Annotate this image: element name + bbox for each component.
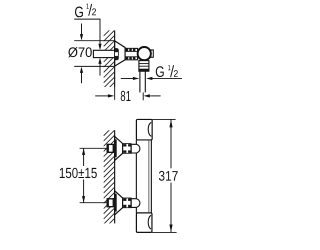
union nut (top view)	[125, 48, 138, 59]
G 1/2 top label text	[75, 4, 96, 18]
150±15 upper extension line	[80, 147, 107, 149]
thermostat bar left edge	[135, 140, 137, 213]
G 1/2 bottom label text	[156, 65, 178, 77]
pipe bore lines through nut	[125, 50, 138, 52]
lower rosette collar dark bar at wall	[114, 194, 117, 212]
thermostat bar inner shading line	[148, 141, 150, 213]
upper rosette escutcheon cone	[115, 136, 123, 160]
outlet pipe (downward, G 1/2)	[139, 71, 141, 92]
rosette collar dark detail	[115, 48, 119, 60]
Ø70 dimension lower arrow	[81, 72, 83, 83]
extension line top of Ø70 rosette	[74, 40, 114, 42]
lower supply pipe in wall	[107, 199, 114, 207]
nut shading band top	[126, 49, 136, 52]
extension line bottom of Ø70 rosette	[74, 65, 114, 67]
lower union nut	[123, 198, 131, 208]
bar top cap end ellipse arc	[148, 123, 151, 137]
317 upper extension line	[152, 118, 175, 120]
81 dimension right arrow	[144, 94, 150, 97]
317 dimension line with arrows	[170, 119, 172, 168]
nut ridge gaps	[128, 49, 129, 60]
thermostat bar right edge	[150, 140, 152, 213]
lower inlet dome on bar	[131, 199, 140, 208]
150±15 dimension line with arrows	[83, 148, 85, 166]
nut shading band bottom	[126, 57, 136, 60]
valve body circle (top view)	[138, 47, 151, 60]
bar bottom cap end ellipse arc	[148, 215, 151, 229]
bar top cap	[136, 119, 152, 140]
bar bottom cap	[136, 213, 152, 233]
upper inlet dome on bar	[131, 144, 140, 153]
upper supply pipe in wall	[107, 144, 114, 152]
outlet adapter dark ring	[139, 69, 149, 72]
G 1/2 upper arrow onto inlet pipe	[98, 44, 101, 50]
G 1/2 bottom dimension right arrow with leader under label	[146, 77, 152, 80]
wall hatching (top view)	[104, 25, 115, 98]
inlet pipe through wall (top view)	[93, 50, 114, 57]
upper union nut	[123, 144, 131, 154]
G 1/2 lower arrow onto inlet pipe	[98, 58, 101, 64]
wall face extension line down to 81 dimension	[114, 87, 116, 100]
wall hatching (bottom view)	[104, 125, 115, 234]
150±15 lower extension line	[80, 202, 107, 204]
lower rosette escutcheon cone	[115, 191, 123, 215]
317 dimension text	[159, 171, 178, 181]
317 lower extension line	[152, 231, 177, 233]
Ø70 dimension text	[68, 47, 92, 57]
wall face line (top view)	[114, 30, 116, 87]
wall face line (bottom view)	[114, 130, 116, 223]
handle end tab right of valve body	[151, 50, 153, 57]
81 dimension text	[121, 91, 131, 101]
81 dimension left arrow	[95, 95, 108, 97]
G 1/2 bottom dimension left arrow	[121, 77, 133, 79]
outlet adapter below valve body	[139, 61, 149, 72]
G 1/2 top label underline leader	[74, 19, 100, 44]
upper rosette collar dark bar at wall	[114, 139, 117, 157]
rosette escutcheon cone (top view)	[115, 41, 125, 66]
150±15 dimension text	[60, 168, 97, 178]
Ø70 dimension upper arrow	[81, 24, 83, 35]
81 dimension outlet extension line	[142, 92, 144, 100]
